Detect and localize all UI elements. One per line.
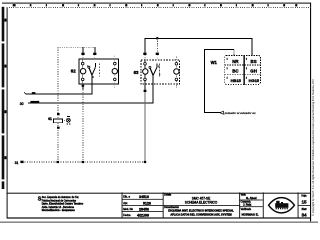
left zone letters: [4, 19, 6, 160]
wire 1 connector blob: [32, 92, 36, 94]
wire: NR feed L-shape: [205, 49, 234, 112]
approval column texts: [241, 193, 259, 216]
relay K62 NO contact mark: [94, 63, 96, 67]
company cell text: [38, 196, 84, 212]
relay K62 mechanical link dashes: [99, 64, 101, 77]
title cell split line: [163, 204, 240, 207]
junction square on coil drop: [82, 85, 85, 87]
relay K63 right big circle: [174, 69, 179, 74]
svg-text:30: 30: [20, 102, 24, 106]
svg-text:Details: Details: [164, 194, 172, 197]
relay K63 pin circles: [144, 63, 178, 81]
off-sheet arrowhead: [220, 111, 224, 114]
ground bus dotted line term 31: [25, 161, 147, 163]
svg-text:SCHEMA ELECTRICO: SCHEMA ELECTRICO: [185, 200, 218, 204]
svg-text:J. Ruiz: J. Ruiz: [243, 203, 252, 207]
wire: relay2 coil drop to ground bus: [144, 92, 146, 162]
faint stubs into relay1 top: [82, 55, 84, 59]
svg-text:ESQUEMA INST. ELECTRICO INTERC: ESQUEMA INST. ELECTRICO INTERCONEX SPECI…: [168, 209, 234, 213]
W1 connector dashed outline: [225, 56, 261, 85]
lamp symbol: [67, 117, 71, 123]
relay K63 NO contact mark: [156, 63, 158, 67]
wire 1 start tick: [24, 92, 25, 94]
faint stubs into relay2 top: [144, 55, 146, 60]
approval column lines: [239, 199, 263, 202]
company logo pointed oval: [269, 198, 295, 213]
svg-text:9126: 9126: [143, 201, 151, 205]
data column row lines: [122, 198, 164, 201]
resistor R61 box: [53, 119, 62, 123]
svg-text:NORMAS E.: NORMAS E.: [242, 213, 259, 217]
svg-text:Hoja: Hoja: [302, 195, 308, 198]
W1 row divider dashes: [225, 64, 261, 66]
W1 cell labels: [231, 59, 260, 83]
relay K62 coil line: [82, 59, 84, 84]
relay K63 mechanical link dashes: [159, 64, 161, 77]
data column texts: [123, 195, 151, 218]
wire: relay2 coil bottom stub + junction: [144, 84, 146, 92]
wire: relay1 coil bottom stub: [82, 84, 84, 89]
wire: dashed harness bracket over relay K62, horizontal y=47: [57, 46, 94, 48]
svg-text:NR: NR: [232, 59, 239, 64]
wire: drop to relay coil terminal x=83: [82, 47, 84, 52]
wire 2 (term 30) horizontal: [28, 102, 154, 104]
relay K63 switch arm: [150, 68, 153, 75]
relay K62 coil circle: [80, 69, 85, 74]
svg-text:© Copyright by SEAT, S.A. All: © Copyright by SEAT, S.A. All rights Res…: [311, 79, 315, 216]
border frame top line: [2, 3, 311, 4]
terminal square relay2 coil top: [143, 53, 146, 55]
relay K62 switch arm leg 2: [92, 67, 95, 75]
relay K63 right terminal line: [175, 56, 177, 88]
svg-text:BC: BC: [232, 68, 239, 73]
wire: relay1 coil dotted drop to ground bus: [82, 89, 84, 161]
top ruler zone numbers: [13, 4, 298, 6]
svg-text:pulsador al avisador ac.: pulsador al avisador ac.: [224, 111, 257, 115]
left scan edge bar: [2, 7, 5, 189]
W1 cell pin ticks: [227, 58, 247, 79]
relay K62 pin number marks: [87, 65, 88, 67]
sheet number texts: [301, 195, 307, 218]
lamp symbol base marks: [67, 123, 68, 124]
wire: relay1 common pin down to wire1: [91, 75, 93, 94]
relay K63 coil circle: [143, 69, 148, 74]
terminal square relay1 coil top: [81, 53, 84, 55]
title block top line: [7, 193, 311, 194]
svg-text:Normalizacion - Esquemas: Normalizacion - Esquemas: [42, 208, 76, 212]
svg-text:Apr.: Apr.: [123, 201, 128, 205]
svg-text:34: 34: [301, 212, 307, 217]
wire 1 (term 15) horizontal: [25, 93, 92, 95]
title block bottom line: [7, 217, 311, 218]
relay K62 switch arm: [89, 68, 92, 75]
svg-text:Blatt: Blatt: [302, 208, 307, 211]
svg-text:HG15: HG15: [249, 78, 260, 83]
logo wordmark: [275, 201, 288, 210]
svg-text:Mod. No: Mod. No: [123, 207, 133, 211]
relay K63 switch arm leg 2: [153, 67, 157, 75]
wire: dashed vertical x=57.4 from bracket down to resistor: [57, 47, 59, 119]
drawing title text: [164, 194, 234, 217]
top dotted margin line: [7, 7, 311, 9]
svg-text:15: 15: [301, 200, 307, 205]
junction square relay2 coil drop: [144, 90, 147, 92]
svg-text:APLICA DATOS DEL CONVERSION AU: APLICA DATOS DEL CONVERSION AUX. SYSTEM: [170, 212, 231, 216]
svg-text:HB15: HB15: [231, 78, 242, 83]
svg-text:34510: 34510: [139, 195, 149, 199]
wire 2 connector blob: [30, 101, 39, 103]
title block vertical dividers: [121, 192, 124, 218]
terminal square relay1 contact top: [93, 53, 96, 55]
inner frame left line: [7, 7, 8, 218]
wire: dotted drop junction to relay2 NO terminal: [156, 38, 158, 52]
lamp symbol link dash: [64, 120, 66, 122]
svg-text:28456: 28456: [139, 207, 149, 211]
svg-text:4/21/99: 4/21/99: [137, 214, 149, 218]
relay K62 box: [79, 59, 119, 84]
junction dot on top feed: [156, 37, 159, 40]
relay K62 right big circle: [112, 69, 117, 74]
border frame right line: [310, 3, 311, 223]
wire: drop to relay NO terminal x=94.8: [94, 47, 96, 52]
relay K63 coil line: [144, 60, 146, 84]
wire: top feed y=38.3 from relay2 to W1 BS: [145, 38, 252, 55]
relay K62 switch pivot: [88, 66, 90, 68]
wire: relay2 common pin down to wire2: [152, 75, 154, 103]
svg-text:G. Abad: G. Abad: [246, 196, 257, 200]
svg-text:62: 62: [71, 69, 76, 74]
svg-text:Dib. a: Dib. a: [123, 195, 130, 199]
relay K63 switch pivot: [149, 66, 151, 68]
terminal square relay2 contact top: [156, 53, 159, 55]
svg-text:Fecha: Fecha: [123, 213, 131, 217]
resistor R61 terminal square top: [57, 113, 60, 115]
resistor R61 terminal square bottom: [57, 127, 60, 129]
wire: dashed drop into NR cell: [233, 49, 235, 55]
bottom grey scan line: [0, 221, 318, 223]
svg-text:Verificado: Verificado: [241, 208, 252, 211]
bus junction squares: [57, 161, 59, 163]
relay K62 pin circles: [81, 62, 116, 80]
wire: dashed vertical x=57.9 resistor to ground bus: [57, 123, 59, 162]
svg-text:W1: W1: [211, 60, 218, 65]
sheet number cell split: [298, 204, 311, 207]
relay K63 dashed box: [141, 60, 180, 84]
relay K63 pin number marks: [158, 65, 159, 67]
relay K62 right terminal line: [114, 55, 116, 88]
svg-text:63: 63: [134, 70, 139, 75]
svg-text:31: 31: [15, 161, 19, 165]
svg-text:BS: BS: [251, 59, 257, 64]
svg-text:GH: GH: [250, 68, 257, 73]
svg-text:61: 61: [48, 117, 52, 121]
W1 bold centre divider: [243, 55, 245, 85]
